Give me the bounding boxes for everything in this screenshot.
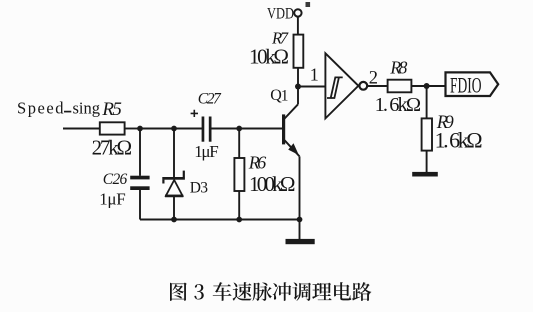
svg-text:1: 1 xyxy=(310,64,319,84)
node D (collector / schmitt input) xyxy=(295,84,301,90)
zener diode D3 xyxy=(162,171,208,197)
transistor Q1 xyxy=(270,87,299,156)
svg-text:1. 6kΩ: 1. 6kΩ xyxy=(435,128,483,153)
ground (R9) xyxy=(412,172,438,177)
wire Q1 emitter down to rail xyxy=(299,156,301,219)
wire C27 to node C xyxy=(212,128,240,130)
svg-text:27kΩ: 27kΩ xyxy=(92,135,133,159)
svg-text:C26: C26 xyxy=(103,171,128,188)
wire VDD to R7 xyxy=(297,17,299,35)
wire node A to node B xyxy=(140,128,174,130)
svg-text:3: 3 xyxy=(200,179,208,196)
svg-text:1. 6kΩ: 1. 6kΩ xyxy=(375,94,422,116)
wire bottom rail xyxy=(140,219,300,221)
capacitor C26 xyxy=(99,171,149,209)
svg-text:sing: sing xyxy=(73,99,101,118)
wire rail to ground xyxy=(299,220,301,240)
wire R9 to ground xyxy=(426,151,428,172)
svg-text:1μF: 1μF xyxy=(99,189,126,208)
resistor R5 xyxy=(92,99,133,160)
wire node B to C27 xyxy=(174,128,202,130)
resistor R6 xyxy=(234,152,295,196)
svg-text:1μF: 1μF xyxy=(194,142,219,161)
capacitor C27 xyxy=(191,90,222,161)
wire C26 branch lower xyxy=(139,190,141,220)
wire R5 to node A xyxy=(125,128,140,130)
wire R8 to FDIO flag xyxy=(412,85,446,87)
wire C26 branch upper xyxy=(139,129,141,176)
node E (R9 tap) xyxy=(424,83,430,89)
schmitt trigger U1 xyxy=(325,53,367,118)
svg-text:100kΩ: 100kΩ xyxy=(249,172,296,196)
svg-text:C27: C27 xyxy=(198,90,222,107)
resistor R9 xyxy=(422,113,483,152)
svg-text:R8: R8 xyxy=(389,57,407,77)
node A (C26 tap) xyxy=(137,126,143,132)
ground (emitter rail) xyxy=(286,239,315,244)
wire node C to Q1 base xyxy=(239,128,282,130)
node rail R6 xyxy=(236,217,242,223)
port flag FDIO xyxy=(446,72,499,97)
caption 图3 车速脉冲调理电路 xyxy=(170,282,371,301)
svg-text:R5: R5 xyxy=(101,99,122,120)
wire input to R5 xyxy=(63,128,101,130)
wire U1 output to R8 xyxy=(367,85,388,87)
wire D3 branch upper xyxy=(173,129,175,178)
resistor R7 xyxy=(249,28,303,68)
svg-text:10kΩ: 10kΩ xyxy=(249,45,289,69)
svg-text:FDIO: FDIO xyxy=(450,73,482,98)
svg-text:R6: R6 xyxy=(248,152,266,172)
svg-text:Speed: Speed xyxy=(17,99,64,118)
wire R6 branch lower xyxy=(238,191,240,220)
wire D3 branch lower xyxy=(173,197,175,220)
node B (D3 tap) xyxy=(171,126,177,132)
wire node D to U1 input xyxy=(298,86,325,88)
node C (R6 tap) xyxy=(236,126,242,132)
wire node E to R9 xyxy=(426,86,428,119)
svg-text:1: 1 xyxy=(281,88,289,105)
svg-text:VDD: VDD xyxy=(267,5,294,22)
node rail emitter xyxy=(297,217,303,223)
wire R6 branch upper xyxy=(238,129,240,159)
resistor R8 xyxy=(375,57,422,115)
wire R7 to node D xyxy=(297,68,299,87)
power VDD xyxy=(267,2,310,22)
node rail D3 xyxy=(171,217,177,223)
wire Q1 collector up to node D xyxy=(297,87,299,105)
